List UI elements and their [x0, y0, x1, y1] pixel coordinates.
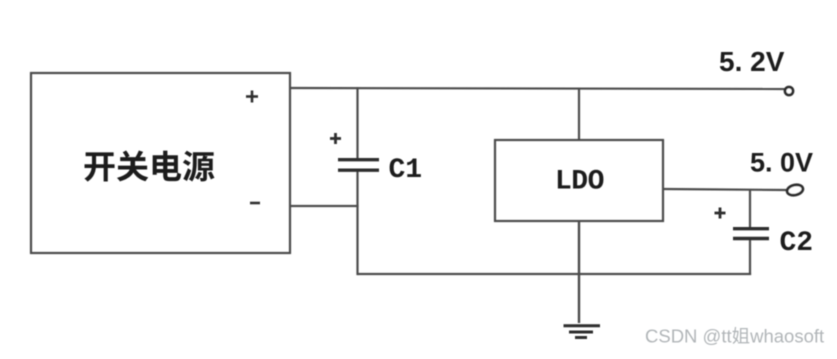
- wire C1 branch upper vertical: [356, 87, 358, 159]
- svg-text:CSDN @tt: CSDN @tt: [645, 326, 732, 347]
- svg-text:C1: C1: [389, 155, 423, 186]
- svg-text:5. 0V: 5. 0V: [750, 148, 813, 178]
- LDO regulator box U1: [495, 140, 663, 221]
- label + polarity of C2: [715, 208, 726, 219]
- wire C1 branch lower vertical: [356, 171, 358, 275]
- label + polarity of C1: [330, 133, 341, 144]
- svg-text:LDO: LDO: [555, 167, 604, 198]
- wire C2 branch upper vertical: [749, 190, 751, 228]
- watermark CSDN @tt姐whaosoft: [645, 326, 824, 347]
- wire bottom rail: [358, 273, 752, 275]
- label - negative terminal of power supply: [250, 202, 260, 205]
- wire LDO ground pin down to earth: [578, 221, 580, 323]
- wire LDO input vertical: [578, 88, 580, 141]
- ground symbol: [564, 326, 601, 338]
- wire top rail from power supply + to 5.2V terminal: [290, 88, 786, 89]
- svg-text:C2: C2: [780, 228, 814, 259]
- label + positive terminal of power supply: [246, 91, 258, 103]
- wire C2 branch lower vertical: [749, 239, 751, 275]
- wire from power supply - to C1 node: [289, 205, 359, 207]
- terminal ellipse 5.0V output: [786, 183, 804, 196]
- power supply box 开关电源: [31, 73, 290, 253]
- svg-text:5. 2V: 5. 2V: [719, 46, 785, 77]
- label 开关电源: [84, 150, 214, 181]
- terminal circle 5.2V output: [785, 87, 793, 95]
- capacitor C1 plates: [338, 160, 379, 171]
- svg-text:whaosoft: whaosoft: [749, 326, 824, 347]
- capacitor C2 plates: [733, 229, 769, 239]
- wire LDO output to 5.0V terminal: [663, 189, 786, 190]
